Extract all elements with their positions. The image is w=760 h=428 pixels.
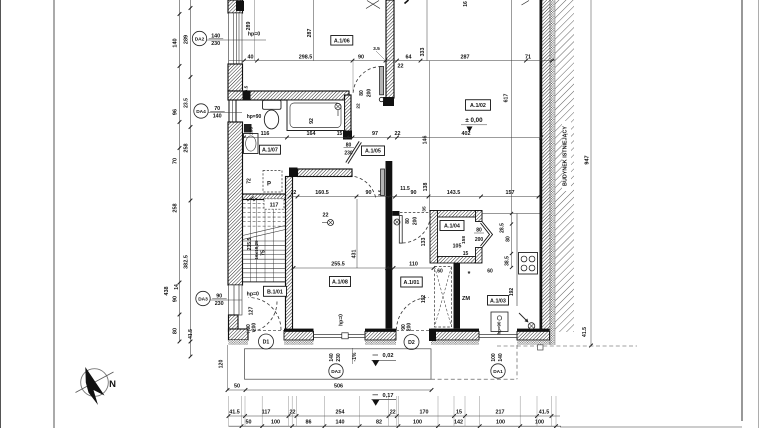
svg-text:BUDYNEK ISTNIEJĄCY: BUDYNEK ISTNIEJĄCY bbox=[563, 126, 569, 186]
svg-text:71: 71 bbox=[525, 54, 531, 60]
svg-text:50: 50 bbox=[246, 419, 252, 425]
svg-text:15: 15 bbox=[456, 409, 462, 415]
svg-text:22: 22 bbox=[398, 64, 404, 70]
svg-text:22: 22 bbox=[291, 190, 297, 196]
svg-text:333: 333 bbox=[420, 48, 426, 57]
svg-text:105: 105 bbox=[453, 244, 462, 250]
svg-text:140: 140 bbox=[211, 33, 220, 39]
svg-text:100: 100 bbox=[491, 353, 497, 362]
svg-text:A.1/01: A.1/01 bbox=[404, 280, 420, 286]
svg-text:0,17: 0,17 bbox=[383, 393, 394, 399]
svg-text:138: 138 bbox=[423, 183, 429, 192]
svg-text:D2: D2 bbox=[408, 340, 415, 346]
svg-text:133: 133 bbox=[421, 238, 427, 247]
svg-text:230: 230 bbox=[336, 353, 342, 362]
svg-text:± 0,00: ± 0,00 bbox=[465, 117, 483, 124]
svg-text:72: 72 bbox=[247, 178, 253, 184]
svg-text:287: 287 bbox=[307, 29, 313, 38]
svg-text:230: 230 bbox=[344, 151, 353, 157]
svg-text:142: 142 bbox=[454, 419, 463, 425]
svg-text:140: 140 bbox=[213, 114, 222, 120]
svg-text:200: 200 bbox=[407, 323, 413, 332]
svg-text:15: 15 bbox=[337, 131, 343, 137]
svg-text:15: 15 bbox=[463, 251, 469, 257]
svg-text:41.5: 41.5 bbox=[229, 409, 240, 415]
svg-text:80: 80 bbox=[173, 328, 179, 334]
svg-text:14: 14 bbox=[174, 284, 180, 290]
svg-text:16: 16 bbox=[463, 1, 469, 7]
svg-text:*: * bbox=[468, 271, 471, 278]
svg-text:90: 90 bbox=[173, 296, 179, 302]
svg-text:158: 158 bbox=[461, 236, 467, 244]
svg-text:11.5: 11.5 bbox=[400, 186, 410, 192]
svg-text:289: 289 bbox=[246, 22, 252, 31]
svg-text:22: 22 bbox=[323, 213, 329, 219]
svg-text:ZM: ZM bbox=[462, 296, 470, 302]
svg-text:hp=0: hp=0 bbox=[339, 314, 345, 326]
svg-text:287: 287 bbox=[461, 54, 470, 60]
svg-text:80: 80 bbox=[405, 218, 411, 224]
svg-text:N: N bbox=[109, 379, 116, 390]
svg-text:35: 35 bbox=[422, 206, 428, 212]
svg-text:A.1/07: A.1/07 bbox=[262, 148, 278, 154]
svg-text:90: 90 bbox=[366, 190, 372, 196]
svg-text:80: 80 bbox=[476, 227, 482, 233]
svg-text:41.5: 41.5 bbox=[582, 327, 588, 337]
svg-text:70: 70 bbox=[214, 106, 220, 112]
svg-text:164: 164 bbox=[307, 131, 316, 137]
svg-text:140: 140 bbox=[173, 38, 179, 47]
svg-text:258: 258 bbox=[173, 203, 179, 212]
svg-text:80: 80 bbox=[506, 236, 512, 242]
svg-text:A.1/02: A.1/02 bbox=[470, 103, 486, 109]
svg-text:100: 100 bbox=[496, 419, 505, 425]
svg-text:116: 116 bbox=[261, 131, 270, 137]
svg-text:41.5: 41.5 bbox=[188, 329, 194, 339]
svg-text:DA3: DA3 bbox=[198, 296, 208, 302]
svg-text:22: 22 bbox=[390, 409, 396, 415]
svg-text:100: 100 bbox=[535, 419, 544, 425]
svg-text:200: 200 bbox=[413, 217, 419, 226]
svg-text:64: 64 bbox=[406, 54, 412, 60]
svg-text:192: 192 bbox=[509, 288, 515, 297]
svg-text:A.1/08: A.1/08 bbox=[332, 280, 348, 286]
svg-text:160.5: 160.5 bbox=[315, 190, 329, 196]
svg-text:254: 254 bbox=[336, 409, 345, 415]
svg-text:75: 75 bbox=[261, 250, 267, 256]
svg-text:41.5: 41.5 bbox=[539, 409, 550, 415]
svg-text:140: 140 bbox=[498, 353, 504, 362]
svg-text:60: 60 bbox=[437, 269, 443, 275]
svg-text:438: 438 bbox=[164, 286, 170, 295]
svg-text:A.1/06: A.1/06 bbox=[334, 38, 350, 44]
svg-text:82: 82 bbox=[376, 419, 382, 425]
svg-text:0,02: 0,02 bbox=[383, 353, 394, 359]
svg-text:382.5: 382.5 bbox=[184, 255, 190, 269]
svg-text:DA2: DA2 bbox=[331, 369, 341, 375]
svg-text:431: 431 bbox=[352, 250, 358, 259]
svg-text:hp=0: hp=0 bbox=[248, 32, 260, 38]
svg-text:16x18,29: 16x18,29 bbox=[254, 240, 259, 260]
svg-text:117: 117 bbox=[262, 409, 271, 415]
svg-text:B.1/01: B.1/01 bbox=[267, 289, 283, 295]
svg-text:90: 90 bbox=[411, 190, 417, 196]
svg-text:168: 168 bbox=[249, 127, 255, 135]
svg-text:110: 110 bbox=[409, 261, 418, 267]
svg-text:70: 70 bbox=[173, 158, 179, 164]
svg-text:A.1/03: A.1/03 bbox=[490, 298, 506, 304]
svg-text:140: 140 bbox=[336, 419, 345, 425]
svg-text:40: 40 bbox=[248, 54, 254, 60]
svg-text:200: 200 bbox=[475, 237, 484, 243]
svg-text:170: 170 bbox=[420, 409, 429, 415]
svg-text:230: 230 bbox=[215, 301, 224, 307]
svg-text:38.5: 38.5 bbox=[505, 256, 511, 266]
svg-text:146: 146 bbox=[423, 136, 429, 145]
svg-text:127: 127 bbox=[249, 307, 255, 316]
svg-text:A.1/04: A.1/04 bbox=[444, 224, 460, 230]
svg-text:140: 140 bbox=[329, 353, 335, 362]
svg-text:200: 200 bbox=[252, 323, 258, 332]
svg-text:-1%: -1% bbox=[352, 352, 358, 361]
svg-text:22: 22 bbox=[395, 131, 401, 137]
svg-text:hp=0: hp=0 bbox=[247, 292, 259, 298]
svg-text:A.1/05: A.1/05 bbox=[365, 149, 381, 155]
svg-text:289: 289 bbox=[184, 35, 190, 44]
svg-text:92: 92 bbox=[309, 118, 315, 124]
svg-text:100: 100 bbox=[413, 419, 422, 425]
svg-text:DA4: DA4 bbox=[196, 109, 206, 115]
svg-text:217: 217 bbox=[496, 409, 505, 415]
svg-text:22: 22 bbox=[356, 103, 362, 109]
svg-text:117: 117 bbox=[270, 202, 279, 208]
svg-text:97: 97 bbox=[372, 131, 378, 137]
svg-text:60: 60 bbox=[487, 269, 493, 275]
svg-text:157: 157 bbox=[506, 190, 515, 196]
svg-text:DA2: DA2 bbox=[195, 36, 205, 42]
svg-text:100: 100 bbox=[271, 419, 280, 425]
svg-text:258: 258 bbox=[184, 143, 190, 152]
svg-text:235.5: 235.5 bbox=[247, 238, 253, 251]
svg-text:90: 90 bbox=[358, 54, 364, 60]
svg-text:hp=90: hp=90 bbox=[247, 114, 262, 120]
svg-text:192: 192 bbox=[421, 295, 427, 304]
svg-text:D1: D1 bbox=[263, 340, 270, 346]
svg-text:143.5: 143.5 bbox=[447, 190, 461, 196]
svg-text:28.5: 28.5 bbox=[500, 223, 506, 233]
svg-text:96: 96 bbox=[173, 109, 179, 115]
svg-text:DA1: DA1 bbox=[493, 369, 503, 375]
svg-text:255.5: 255.5 bbox=[331, 261, 345, 267]
svg-text:230: 230 bbox=[211, 41, 220, 47]
svg-text:617: 617 bbox=[504, 94, 510, 103]
svg-text:23.5: 23.5 bbox=[184, 98, 190, 108]
svg-text:506: 506 bbox=[334, 383, 343, 389]
svg-text:hp=90: hp=90 bbox=[497, 321, 502, 334]
svg-text:298.5: 298.5 bbox=[299, 54, 313, 60]
svg-text:90: 90 bbox=[216, 293, 222, 299]
svg-text:P: P bbox=[267, 182, 271, 188]
svg-text:3.5: 3.5 bbox=[244, 85, 250, 92]
svg-text:86: 86 bbox=[306, 419, 312, 425]
svg-text:947: 947 bbox=[585, 155, 591, 164]
svg-text:200: 200 bbox=[367, 89, 373, 98]
svg-text:80: 80 bbox=[359, 90, 365, 96]
svg-text:120: 120 bbox=[219, 360, 225, 369]
svg-text:3.5: 3.5 bbox=[373, 46, 380, 52]
svg-text:50: 50 bbox=[234, 383, 240, 389]
svg-text:22: 22 bbox=[290, 409, 296, 415]
svg-text:402: 402 bbox=[462, 131, 471, 137]
